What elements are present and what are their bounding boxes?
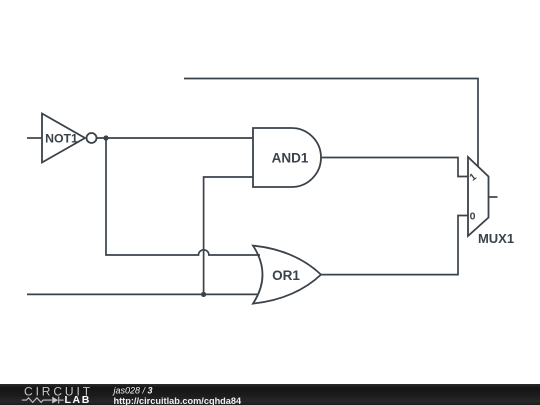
wire vertical from bottom junction to AND1 bottom input — [204, 177, 253, 294]
wire AND1 output to MUX1 input 1 — [321, 158, 468, 177]
svg-text:0: 0 — [470, 211, 476, 223]
footer black bar — [0, 384, 540, 405]
inverter NOT1 bubble — [87, 133, 97, 143]
svg-text:NOT1: NOT1 — [45, 131, 78, 145]
svg-text:MUX1: MUX1 — [478, 231, 514, 246]
svg-text:OR1: OR1 — [272, 268, 300, 283]
logo diode triangle — [52, 397, 58, 404]
wire select line to MUX1 — [184, 79, 478, 167]
mux MUX1 body — [468, 157, 489, 236]
wire MUX1 output stub — [489, 196, 498, 198]
svg-text:LAB: LAB — [65, 394, 91, 405]
junction dot node A — [103, 135, 108, 140]
wire input A to NOT1 — [27, 137, 42, 139]
junction dot node B — [201, 292, 206, 297]
svg-text:http://circuitlab.com/cqhda84: http://circuitlab.com/cqhda84 — [114, 396, 243, 405]
wire NOT1 output to AND1 top input — [97, 137, 254, 139]
wire input B bottom horizontal to OR1 — [27, 293, 258, 295]
and-gate AND1 body — [253, 128, 321, 187]
wire junction A down to OR1 top input — [106, 138, 260, 255]
svg-text:jas028 / 3: jas028 / 3 — [113, 386, 153, 396]
svg-text:1: 1 — [468, 171, 480, 183]
svg-text:AND1: AND1 — [272, 150, 309, 165]
or-gate OR1 body — [253, 246, 321, 304]
wire OR1 output to MUX1 input 0 — [321, 216, 468, 275]
logo resistor zigzag and diode — [22, 397, 64, 404]
inverter NOT1 triangle — [42, 114, 85, 163]
